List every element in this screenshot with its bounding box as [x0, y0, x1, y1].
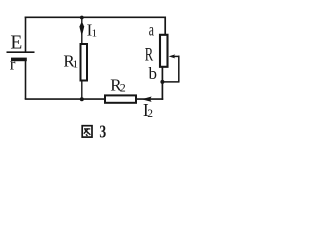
label I2 [143, 100, 153, 120]
svg-text:1: 1 [73, 59, 79, 71]
battery short thick plate (-) [11, 58, 27, 62]
wire: R1 branch lower lead [81, 81, 83, 100]
svg-text:R: R [145, 45, 154, 66]
wire: left branch lower segment (battery negative lead) [25, 61, 27, 99]
node junction: wiper return on right branch [160, 80, 164, 84]
svg-text:b: b [149, 64, 158, 83]
svg-text:r: r [10, 55, 16, 74]
resistor R rheostat (vertical box, terminals a/b) [160, 35, 168, 67]
svg-text:E: E [10, 33, 22, 54]
wire: right branch lower segment (R terminal b to bottom wire) [161, 67, 163, 100]
current arrow I1 (pointing down) [79, 21, 84, 35]
label I1 [87, 20, 98, 39]
wire: top horizontal (node from battery + to R1 top and R top) [25, 16, 166, 18]
svg-text:1: 1 [92, 28, 98, 40]
label R2 [110, 75, 125, 94]
resistor R2 (horizontal box on bottom wire) [105, 95, 136, 102]
svg-text:2: 2 [120, 81, 126, 95]
wiper arrow of rheostat R (points left into right side of R) [162, 54, 179, 82]
wire: bottom horizontal (from battery - through R2 to right branch) [25, 98, 164, 100]
node junction: R1 bottom on bottom wire [80, 97, 84, 101]
wire: right branch upper segment (top wire to R terminal a) [164, 17, 166, 36]
battery cell E with internal resistance r [7, 52, 35, 61]
caption: Chinese character 图 (figure) drawn as vector [82, 126, 92, 137]
wire: left branch upper segment (battery positive lead) [25, 17, 27, 53]
label R1 [63, 52, 78, 71]
svg-text:a: a [149, 20, 154, 40]
current arrow I2 (pointing left, on wire right of R2) [142, 97, 152, 102]
svg-text:2: 2 [147, 108, 153, 120]
resistor R1 (vertical box) [81, 44, 88, 81]
node junction: R1 top on top wire [80, 16, 84, 20]
svg-text:3: 3 [99, 122, 106, 142]
wire: R1 branch upper lead [81, 17, 83, 43]
battery long plate (+) [7, 51, 35, 53]
